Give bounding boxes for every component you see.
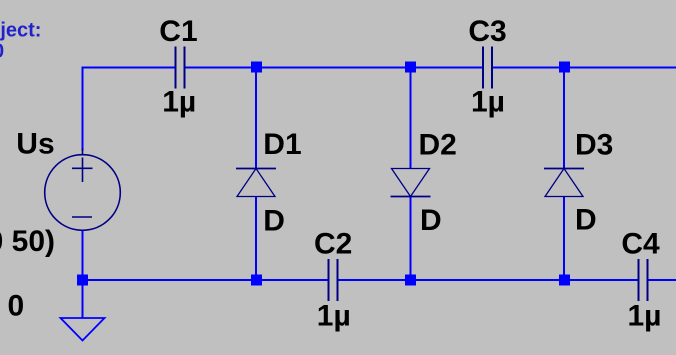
svg-text:C3: C3	[468, 15, 506, 48]
svg-text:C2: C2	[314, 228, 352, 261]
wire bottom rail segment right (C4 to right edge)	[648, 279, 676, 281]
wire source bottom to bottom rail	[82, 231, 84, 281]
svg-text:0: 0	[0, 41, 4, 63]
capacitor C2	[329, 259, 338, 301]
capacitor C3	[483, 47, 492, 89]
node bottom rail at D3	[559, 275, 570, 286]
node top rail at D3	[559, 62, 570, 73]
svg-text:Project:: Project:	[0, 20, 41, 42]
svg-text:0: 0	[8, 290, 25, 323]
svg-text:D: D	[263, 205, 285, 238]
svg-text:0 50): 0 50)	[0, 225, 55, 258]
wire D2 to bottom rail	[410, 197, 412, 281]
wire D2 top drop	[410, 68, 412, 169]
node top rail at D2	[405, 62, 416, 73]
wire top rail segment left (corner to C1)	[82, 67, 176, 69]
node top rail at D1	[251, 62, 262, 73]
node bottom rail at D2	[405, 275, 416, 286]
svg-text:1µ: 1µ	[471, 86, 505, 119]
svg-text:C4: C4	[621, 228, 660, 261]
diode D2 (pointing down)	[391, 169, 431, 197]
wire D1 anode drop (top rail to diode)	[255, 68, 257, 169]
ground	[61, 318, 105, 341]
svg-text:1µ: 1µ	[317, 300, 351, 333]
capacitor C1	[176, 47, 185, 89]
svg-text:1µ: 1µ	[628, 300, 662, 333]
svg-text:Us: Us	[16, 128, 54, 161]
diode D3	[544, 169, 584, 197]
node bottom rail at D1	[251, 275, 262, 286]
wire bottom rail segment left (source to C2)	[82, 279, 329, 281]
svg-text:D: D	[575, 204, 597, 237]
wire bottom rail segment middle (C2 to C4)	[338, 279, 638, 281]
wire D3 to bottom rail	[563, 197, 565, 281]
capacitor C4	[639, 259, 648, 301]
wire top rail segment right (C3 to right edge)	[493, 67, 676, 69]
svg-text:1µ: 1µ	[162, 86, 196, 119]
wire ground stem	[82, 280, 84, 318]
svg-text:D1: D1	[263, 128, 301, 161]
wire D1 to bottom rail	[255, 197, 257, 281]
voltage source Us	[45, 148, 121, 230]
svg-text:D2: D2	[419, 129, 457, 162]
wire top-left vertical from source to top rail	[82, 67, 84, 152]
svg-text:D: D	[420, 204, 442, 237]
svg-text:C1: C1	[159, 15, 197, 48]
diode D1	[236, 169, 276, 197]
node bottom rail at source	[77, 275, 88, 286]
wire top rail segment middle (C1 to C3)	[185, 67, 483, 69]
wire D3 top drop	[563, 68, 565, 169]
svg-text:D3: D3	[575, 128, 613, 161]
